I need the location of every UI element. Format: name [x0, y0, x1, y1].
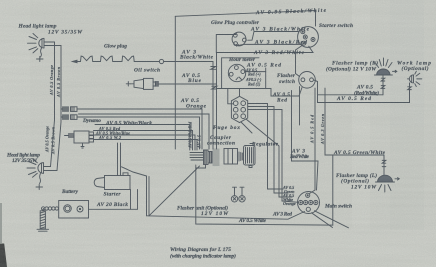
wire main switch top from AV 0.5 Red: [310, 190, 316, 194]
wire harness vertical: [216, 84, 218, 149]
glow plug controller U1: [232, 32, 246, 46]
wire AV0.5 White/Black (horizontal): [79, 109, 203, 149]
wire to flasher switch bottom: [271, 88, 302, 97]
wire glow plug to harness (AV 3 Black/White): [164, 62, 213, 150]
dynamo wire 3: [94, 140, 198, 151]
wire flasher switch right down: [313, 80, 317, 103]
connector on harness wire 2: [212, 86, 217, 89]
wire row 3: [79, 117, 200, 149]
wire fuse box to main switch 1: [248, 104, 268, 190]
dynamo wire AV0.5 White/Blue: [94, 135, 196, 150]
wire dynamo down to starter: [118, 143, 121, 176]
wire starter switch to flasher switch: [296, 45, 303, 77]
wires into main switch from left bundle: [268, 189, 299, 202]
wire diagonal coupler to bottom run: [149, 166, 200, 216]
wire harness main vertical: [174, 16, 176, 149]
wire starter to bottom bus: [147, 176, 150, 216]
wire hour meter to fuse box run: [245, 71, 266, 73]
connector on lamp R drop: [382, 76, 384, 95]
connector pair row 2: [61, 115, 79, 120]
regulator VR1: [244, 144, 256, 168]
wires from lamp1 to bus: [44, 42, 61, 46]
work lamp: [409, 71, 422, 86]
hour meter M1: [228, 64, 245, 81]
wire bus under hour meter: [217, 89, 272, 93]
connector on work lamp drop: [408, 79, 410, 103]
wire fuse box to main switch 2: [248, 107, 274, 194]
wire AV 3 Red/White: [217, 46, 314, 52]
glow plug terminal circle: [159, 59, 163, 63]
hour meter box: [222, 58, 259, 89]
wire AV 0.5 Red to work lamp: [318, 83, 410, 103]
flasher lamp R: [374, 58, 396, 75]
dynamo wire AV0.5 Red: [94, 131, 193, 151]
wire bus AV0.5 Brown (vertical): [57, 46, 61, 171]
wire fuse box to main switch 3: [248, 110, 282, 202]
wire flasher switch left down: [299, 87, 301, 126]
head light lamp 1 (top left): [28, 34, 45, 62]
glow plug arrow: [72, 60, 78, 63]
wire oil switch to harness (AV 0.5 Blue): [158, 53, 216, 85]
wire AV 0.5 White (bottom run B): [196, 165, 333, 225]
main switch pointer diagonals: [312, 211, 349, 228]
connector pair row 1: [61, 107, 79, 112]
wire down right edge: [332, 155, 334, 225]
oil switch: [126, 78, 158, 89]
fuse box pointer diagonal: [241, 122, 252, 133]
dynamo: [65, 131, 94, 148]
connector on lamp L drop: [382, 160, 386, 166]
wire AV 0.5 Red (flasher sw down): [314, 88, 316, 190]
connector on harness wire: [211, 67, 216, 70]
flasher unit FU1: [231, 187, 245, 202]
wire glow plug controller to harness: [216, 35, 236, 53]
flasher switch S2: [299, 72, 316, 89]
wire AV 0.95 Black/White (top run): [175, 11, 315, 27]
wire coupler down to line B: [196, 165, 206, 169]
scan edge marks bottom-left: [0, 244, 7, 267]
main switch S3: [298, 192, 320, 214]
wire AV 0.3 Green (down then to lamp L): [325, 88, 332, 155]
wire AV 0.5 Red/White to flasher lamp R: [318, 94, 384, 96]
ground strap from battery: [37, 207, 59, 231]
coupler connection J2: [224, 149, 242, 165]
glow plug coils (wire with 3 M shapes): [78, 56, 101, 61]
starter switch S1: [298, 27, 319, 48]
wire fuse box diagonal: [246, 119, 279, 197]
coupler connection J1: [204, 149, 220, 166]
wire AV 0.5 White/Black lower: [95, 125, 190, 151]
wire AV 3 Red (bottom run A): [147, 212, 305, 220]
wire AV0.5 Orange to harness: [79, 114, 210, 149]
battery: [59, 201, 138, 219]
wires into coupler left face: [190, 153, 204, 161]
wire AV 0.5 Green/White: [332, 155, 384, 175]
wire AV 3 Black/White: [248, 32, 299, 41]
head light lamp 2 (left): [27, 159, 44, 190]
wire hour meter circuit down right: [292, 91, 319, 191]
fuse box F1: [228, 89, 248, 123]
starter: [94, 173, 130, 190]
wire diagonal from starter area: [122, 167, 147, 176]
wire starter to battery: [131, 190, 138, 210]
wire AV 3 Black/Red: [237, 44, 302, 46]
wire bus AV0.5 Orange (vertical): [51, 42, 55, 167]
wires lamp2 to bus: [44, 167, 58, 171]
flasher lamp L: [376, 175, 400, 192]
